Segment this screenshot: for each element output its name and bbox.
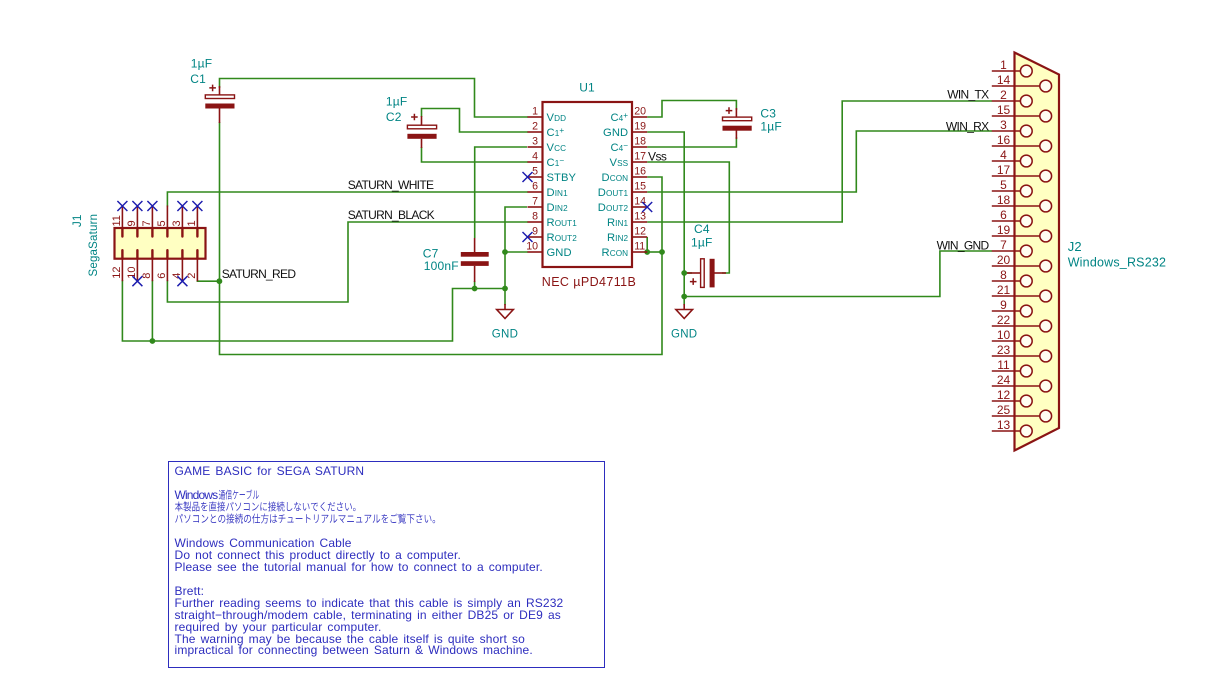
U1 pin 9: [528, 236, 543, 238]
svg-text:VDD: VDD: [547, 112, 567, 124]
svg-text:RCON: RCON: [602, 247, 629, 259]
no-connect J1 pin 10: [132, 276, 142, 286]
svg-text:DIN2: DIN2: [547, 202, 569, 214]
J2 pin 24 lead: [1015, 385, 1040, 387]
U1 pin 8: [528, 221, 543, 223]
note text tsushin cable: [219, 489, 259, 499]
J2 pin 22 lead: [1015, 325, 1040, 327]
J2 pin 3: [992, 130, 1015, 132]
J1 pin 9: [136, 206, 138, 229]
J1 pin 2 inner tick: [196, 250, 198, 259]
J2 pin 25: [992, 415, 1015, 417]
capacitor C2 bottom plate: [407, 134, 436, 139]
wire U1 pin10 GND stub: [505, 251, 528, 253]
svg-text:GND: GND: [671, 329, 697, 341]
J2 pin 11 lead: [1015, 370, 1021, 372]
svg-text:13: 13: [634, 211, 646, 223]
svg-text:8: 8: [532, 211, 538, 223]
svg-text:24: 24: [997, 373, 1011, 387]
svg-text:19: 19: [997, 223, 1011, 237]
J1 pin 8 inner tick: [151, 250, 153, 259]
J2 pin 6: [992, 220, 1015, 222]
J1 pin 3 inner tick: [181, 228, 183, 237]
junction pin10 GND tie node: [502, 249, 508, 255]
svg-text:Windows_RS232: Windows_RS232: [1068, 255, 1166, 269]
U1 pin 14: [632, 206, 647, 208]
wire C4 left stub: [684, 272, 692, 274]
svg-text:STBY: STBY: [547, 172, 577, 184]
svg-text:6: 6: [1000, 208, 1007, 222]
capacitor C1 top pin: [219, 86, 221, 95]
J2 pin 4: [992, 160, 1015, 162]
wire U1 pin11 RCON stub: [647, 251, 662, 253]
U1 pin 20: [632, 116, 647, 118]
no-connect J1 pin 1: [192, 201, 202, 211]
J1 pin 10: [136, 259, 138, 282]
svg-text:J2: J2: [1068, 239, 1082, 254]
no-connect U1 pin9 ROUT2: [523, 232, 533, 242]
svg-text:7: 7: [532, 196, 538, 208]
wire GND rail to GND1: [504, 289, 506, 306]
svg-text:SATURN_RED: SATURN_RED: [222, 267, 297, 281]
J1 pin 10 inner tick: [136, 250, 138, 259]
svg-text:5: 5: [156, 220, 168, 226]
J2 pin 21 circle: [1040, 290, 1052, 302]
svg-text:4: 4: [532, 151, 538, 163]
J2 pin 4 lead: [1015, 160, 1021, 162]
svg-text:SATURN_WHITE: SATURN_WHITE: [348, 178, 434, 192]
C1 polarity +: [209, 85, 216, 92]
J2 pin 11: [992, 370, 1015, 372]
svg-text:1: 1: [186, 220, 198, 226]
svg-text:GND: GND: [547, 247, 572, 259]
J2 pin 10 lead: [1015, 340, 1021, 342]
svg-text:19: 19: [634, 121, 646, 133]
svg-text:9: 9: [1000, 298, 1007, 312]
svg-text:DCON: DCON: [602, 172, 629, 184]
capacitor C1 top plate: [205, 95, 234, 99]
J2 pin 15 lead: [1015, 115, 1040, 117]
svg-text:4: 4: [1000, 148, 1007, 162]
svg-text:7: 7: [1000, 238, 1007, 252]
J2 pin 22 circle: [1040, 320, 1052, 332]
U1 pin 3: [528, 146, 543, 148]
J1 pin 6: [166, 259, 168, 282]
no-connect J1 pin 9: [132, 201, 142, 211]
J2 pin 17 lead: [1015, 175, 1040, 177]
svg-text:WIN_TX: WIN_TX: [947, 87, 989, 101]
wire SATURN_BLACK J1 pin6 to U1 pin8: [167, 222, 528, 302]
capacitor C3 top plate: [723, 117, 752, 121]
J2 pin 17: [992, 175, 1015, 177]
note box frame: [168, 461, 605, 669]
J2 pin 21 lead: [1015, 295, 1040, 297]
capacitor C7 top pin: [474, 238, 476, 253]
svg-text:1µF: 1µF: [191, 57, 213, 71]
J2 pin 19: [992, 235, 1015, 237]
svg-text:11: 11: [111, 215, 123, 226]
J2 pin 9 circle: [1020, 305, 1032, 317]
svg-text:DOUT1: DOUT1: [598, 187, 629, 199]
svg-text:21: 21: [997, 283, 1011, 297]
J2 pin 13 circle: [1020, 425, 1032, 437]
svg-text:3: 3: [532, 136, 538, 148]
svg-text:GND: GND: [492, 329, 518, 341]
J2 pin 8 lead: [1015, 280, 1021, 282]
svg-text:1µF: 1µF: [386, 94, 408, 108]
J2 pin 12: [992, 400, 1015, 402]
J2 pin 9: [992, 310, 1015, 312]
J2 pin 12 circle: [1020, 395, 1032, 407]
J2 pin 14 lead: [1015, 85, 1040, 87]
C2 polarity +: [411, 114, 418, 121]
J2 pin 11 circle: [1020, 365, 1032, 377]
J2 pin 25 lead: [1015, 415, 1040, 417]
wire U1 pin13 RIN1 to J2 pin2 WIN_TX: [647, 101, 992, 222]
capacitor C3 bottom plate: [723, 126, 752, 131]
wire C7 bottom to GND rail: [474, 281, 476, 289]
svg-text:3: 3: [1000, 118, 1007, 132]
J1 pin 4 inner tick: [181, 250, 183, 259]
J1 pin 3: [181, 206, 183, 229]
J2 pin 18 circle: [1040, 200, 1052, 212]
U1 pin 16: [632, 176, 647, 178]
J2 pin 19 lead: [1015, 235, 1040, 237]
J2 pin 3 circle: [1020, 125, 1032, 137]
U1 pin 1: [528, 116, 543, 118]
wire WIN_GND run: [684, 251, 992, 297]
wire U1 pin17 VSS to C4 right: [647, 162, 729, 273]
J1 pin 7: [151, 206, 153, 229]
J1 pin 7 inner tick: [151, 228, 153, 237]
note box text: [175, 466, 564, 657]
svg-text:VSS: VSS: [610, 157, 629, 169]
svg-text:11: 11: [997, 358, 1010, 372]
svg-text:16: 16: [997, 133, 1011, 147]
svg-text:DIN1: DIN1: [547, 187, 569, 199]
wire C1 bottom SATURN_RED vertical: [220, 122, 663, 355]
J2 pin 1 circle: [1020, 65, 1032, 77]
svg-text:1µF: 1µF: [691, 236, 713, 250]
svg-text:2: 2: [532, 121, 538, 133]
wire U1 pin16 DCON down: [647, 177, 662, 252]
svg-text:15: 15: [997, 103, 1011, 117]
wire U1 pin19 GND to C4+ and GND2: [647, 132, 684, 305]
svg-text:10: 10: [997, 328, 1011, 342]
wire C2 top to U1 pin2 C1+: [422, 109, 529, 133]
capacitor C4 right pin: [715, 272, 727, 274]
wire SATURN_WHITE J1 pin5 to U1 pin6: [167, 192, 528, 207]
J1 pin 6 inner tick: [166, 250, 168, 259]
svg-text:VCC: VCC: [547, 142, 567, 154]
svg-text:5: 5: [1000, 178, 1007, 192]
U1 pin 17: [632, 161, 647, 163]
svg-text:1: 1: [1000, 58, 1007, 72]
capacitor C3 top pin: [735, 108, 737, 118]
svg-text:18: 18: [634, 136, 646, 148]
wire U1 pin15 DOUT1 to J2 pin3 WIN_RX: [647, 131, 992, 192]
svg-text:4: 4: [171, 273, 183, 279]
svg-text:2: 2: [186, 273, 198, 279]
svg-text:25: 25: [997, 403, 1011, 417]
svg-text:1: 1: [532, 106, 538, 118]
svg-text:C4: C4: [694, 222, 710, 236]
U1 pin 7: [528, 206, 543, 208]
junction RIN2/RCON node: [644, 249, 650, 255]
svg-text:17: 17: [634, 151, 646, 163]
J2 pin 16 lead: [1015, 145, 1040, 147]
capacitor C4 right plate: [710, 259, 715, 288]
J2 pin 2 circle: [1020, 95, 1032, 107]
svg-text:1µF: 1µF: [760, 120, 782, 134]
J2 pin 15: [992, 115, 1015, 117]
svg-text:U1: U1: [579, 81, 595, 95]
J1 pin 11: [121, 206, 123, 229]
svg-text:DOUT2: DOUT2: [598, 202, 629, 214]
wire U1 pin3 VCC to C7 top: [475, 147, 527, 238]
svg-text:ROUT1: ROUT1: [547, 217, 578, 229]
J2 pin 5 lead: [1015, 190, 1021, 192]
svg-text:14: 14: [997, 73, 1011, 87]
J2 pin 4 circle: [1020, 155, 1032, 167]
note text do not connect jp: [175, 501, 356, 511]
J2 pin 23: [992, 355, 1015, 357]
J2 pin 8 circle: [1020, 275, 1032, 287]
capacitor C7 bottom pin: [474, 266, 476, 282]
C3 polarity +: [726, 107, 733, 114]
U1 pin 13: [632, 221, 647, 223]
wire U1 pin20 to C3 top: [647, 101, 736, 118]
J2 pin 12 lead: [1015, 400, 1021, 402]
capacitor C1 bottom pin: [219, 109, 221, 124]
J2 pin 1 lead: [1015, 70, 1021, 72]
U1 pin 2: [528, 131, 543, 133]
wire U1 pin12 RIN2 drop: [646, 237, 648, 252]
svg-text:6: 6: [156, 273, 168, 279]
J2 pin 25 circle: [1040, 410, 1052, 422]
svg-text:22: 22: [997, 313, 1011, 327]
J1 pin 9 inner tick: [136, 228, 138, 237]
capacitor C2 top plate: [407, 125, 436, 129]
J2 pin 17 circle: [1040, 170, 1052, 182]
J2 pin 24 circle: [1040, 380, 1052, 392]
junction SATURN_RED node: [217, 278, 223, 284]
op-amp/IC U1 body: [543, 102, 633, 267]
J1 pin 11 inner tick: [121, 228, 123, 237]
J1 pin 5: [166, 206, 168, 229]
J2 pin 13: [992, 430, 1015, 432]
capacitor C3 bottom pin: [735, 130, 737, 139]
wire C1 to U1 pin1 VDD: [220, 79, 529, 118]
svg-text:16: 16: [634, 166, 646, 178]
C4 polarity +: [690, 278, 697, 285]
wire C3 bottom to U1 pin18: [647, 137, 736, 147]
svg-text:C3: C3: [760, 106, 776, 120]
no-connect J1 pin 7: [147, 201, 157, 211]
J2 pin 18 lead: [1015, 205, 1040, 207]
wire J1 pin12 GND run: [122, 280, 505, 341]
svg-text:15: 15: [634, 181, 646, 193]
junction C7 bottom node: [472, 286, 478, 292]
svg-text:9: 9: [126, 220, 138, 226]
capacitor C4 left pin: [687, 272, 701, 274]
U1 pin 12: [632, 236, 647, 238]
svg-text:SATURN_BLACK: SATURN_BLACK: [348, 208, 435, 222]
U1 pin 10: [528, 251, 543, 253]
wire C2 bottom to U1 pin4 C1-: [422, 147, 529, 162]
capacitor C2 top pin: [421, 116, 423, 126]
svg-text:C1: C1: [190, 72, 206, 86]
wire J1 pin8 drop: [151, 280, 153, 341]
no-connect U1 pin5 STBY: [523, 172, 533, 182]
J1 pin 12: [121, 259, 123, 282]
J1 pin 8: [151, 259, 153, 282]
U1 pin 11: [632, 251, 647, 253]
svg-text:SegaSaturn: SegaSaturn: [88, 214, 100, 277]
J2 pin 24: [992, 385, 1015, 387]
J2 pin 7 circle: [1020, 245, 1032, 257]
U1 pin 19: [632, 131, 647, 133]
no-connect J1 pin 11: [117, 201, 127, 211]
J2 pin 9 lead: [1015, 310, 1021, 312]
J2 pin 20: [992, 265, 1015, 267]
J2 pin 5: [992, 190, 1015, 192]
svg-text:J1: J1: [72, 214, 84, 227]
J2 pin 7 lead: [1015, 250, 1021, 252]
svg-text:100nF: 100nF: [424, 259, 459, 273]
svg-text:20: 20: [634, 106, 646, 118]
J2 pin 20 circle: [1040, 260, 1052, 272]
svg-text:GND: GND: [603, 127, 628, 139]
J1 pin 4: [181, 259, 183, 282]
J2 pin 1: [992, 70, 1015, 72]
connector J1 body: [115, 228, 206, 259]
junction GND1 node: [502, 286, 508, 292]
J2 pin 23 circle: [1040, 350, 1052, 362]
J1 pin 12 inner tick: [121, 250, 123, 259]
power symbol GND1: [492, 304, 518, 341]
svg-text:17: 17: [997, 163, 1011, 177]
U1 pin 4: [528, 161, 543, 163]
wire J1 pin2 to SATURN_RED junction: [197, 280, 219, 281]
J2 pin 14 circle: [1040, 80, 1052, 92]
capacitor C7 top plate: [461, 252, 489, 257]
junction C4+ node: [681, 270, 687, 276]
svg-text:2: 2: [1000, 88, 1007, 102]
J2 pin 6 lead: [1015, 220, 1021, 222]
svg-text:Vss: Vss: [648, 149, 667, 163]
J2 pin 10 circle: [1020, 335, 1032, 347]
capacitor C1 bottom plate: [205, 104, 234, 109]
svg-text:6: 6: [532, 181, 538, 193]
J2 pin 5 circle: [1020, 185, 1032, 197]
svg-text:20: 20: [997, 253, 1011, 267]
J2 pin 2 lead: [1015, 100, 1021, 102]
svg-text:7: 7: [141, 220, 153, 226]
J2 pin 22: [992, 325, 1015, 327]
svg-text:3: 3: [171, 220, 183, 226]
svg-text:WIN_GND: WIN_GND: [937, 238, 990, 252]
J2 pin 23 lead: [1015, 355, 1040, 357]
wire U1 pin7 DIN2 to GND rail: [505, 207, 527, 289]
svg-text:23: 23: [997, 343, 1011, 357]
U1 pin 15: [632, 191, 647, 193]
connector J2 body DB25: [1015, 53, 1060, 451]
power symbol GND2: [671, 304, 697, 341]
svg-text:ROUT2: ROUT2: [547, 232, 578, 244]
J2 pin 21: [992, 295, 1015, 297]
svg-text:12: 12: [997, 388, 1011, 402]
junction GND2/WIN_GND node: [681, 294, 687, 300]
svg-text:NEC µPD4711B: NEC µPD4711B: [542, 275, 636, 289]
svg-text:RIN1: RIN1: [607, 217, 629, 229]
J2 pin 7: [992, 250, 1015, 252]
J2 pin 10: [992, 340, 1015, 342]
J2 pin 16: [992, 145, 1015, 147]
svg-text:RIN2: RIN2: [607, 232, 629, 244]
J2 pin 15 circle: [1040, 110, 1052, 122]
no-connect J1 pin 4: [177, 276, 187, 286]
U1 pin 6: [528, 191, 543, 193]
svg-text:8: 8: [141, 273, 153, 279]
J2 pin 20 lead: [1015, 265, 1040, 267]
J2 pin 14: [992, 85, 1015, 87]
svg-text:18: 18: [997, 193, 1011, 207]
svg-text:WIN_RX: WIN_RX: [946, 120, 989, 134]
J1 pin 1: [196, 206, 198, 229]
svg-text:C2: C2: [386, 110, 402, 124]
svg-text:9: 9: [532, 226, 538, 238]
J2 pin 18: [992, 205, 1015, 207]
no-connect U1 pin14 DOUT2: [642, 202, 652, 212]
svg-text:11: 11: [634, 241, 645, 253]
no-connect J1 pin 3: [177, 201, 187, 211]
svg-text:12: 12: [111, 267, 123, 279]
J1 pin 2: [196, 259, 198, 282]
junction DCON/RCON node: [659, 249, 665, 255]
J1 pin 1 inner tick: [196, 228, 198, 237]
J2 pin 13 lead: [1015, 430, 1021, 432]
svg-text:10: 10: [526, 241, 538, 253]
junction J1 pin8/pin12 GND node: [150, 338, 156, 344]
capacitor C7 bottom plate: [461, 261, 489, 266]
J2 pin 16 circle: [1040, 140, 1052, 152]
svg-text:8: 8: [1000, 268, 1007, 282]
capacitor C4 left plate: [701, 259, 705, 288]
svg-text:12: 12: [634, 226, 646, 238]
svg-text:5: 5: [532, 166, 538, 178]
svg-text:14: 14: [634, 196, 646, 208]
J2 pin 3 lead: [1015, 130, 1021, 132]
svg-text:13: 13: [997, 418, 1011, 432]
U1 pin 18: [632, 146, 647, 148]
J1 pin 5 inner tick: [166, 228, 168, 237]
note text see tutorial jp: [175, 514, 435, 524]
U1 pin 5: [528, 176, 543, 178]
J2 pin 6 circle: [1020, 215, 1032, 227]
J2 pin 8: [992, 280, 1015, 282]
capacitor C2 bottom pin: [421, 139, 423, 148]
J2 pin 2: [992, 100, 1015, 102]
J2 pin 19 circle: [1040, 230, 1052, 242]
